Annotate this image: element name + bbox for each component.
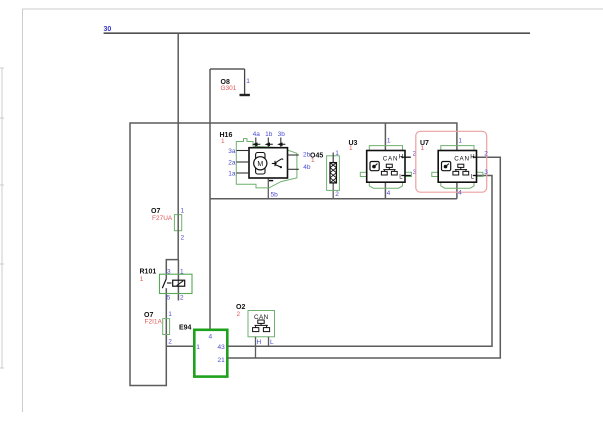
svg-text:1b: 1b xyxy=(265,131,273,138)
network icon xyxy=(381,164,397,175)
pin 2b xyxy=(288,154,299,156)
svg-text:2: 2 xyxy=(335,191,339,198)
svg-text:R101: R101 xyxy=(140,269,157,276)
svg-text:1: 1 xyxy=(335,150,339,157)
wire O2 L to line 43 xyxy=(268,337,270,347)
wire ground rail horizontal xyxy=(210,198,457,200)
component U7 CAN unit xyxy=(420,138,488,197)
svg-text:CAN: CAN xyxy=(383,156,399,163)
svg-text:M: M xyxy=(257,161,263,168)
wire fuse to relay jog xyxy=(166,231,178,279)
svg-text:1: 1 xyxy=(181,208,185,215)
svg-text:1: 1 xyxy=(196,344,200,351)
wire enclosure loop: left side, top side, bottom stub xyxy=(130,123,457,386)
svg-text:F27UA: F27UA xyxy=(152,215,173,222)
svg-text:4: 4 xyxy=(209,333,213,340)
wire E94 21 to U7 pin2 xyxy=(227,157,500,358)
svg-text:2a: 2a xyxy=(228,160,236,167)
wire U3 pin4 to rail xyxy=(384,182,386,199)
pin 5b xyxy=(269,180,273,182)
svg-text:1: 1 xyxy=(349,145,353,152)
svg-text:3: 3 xyxy=(167,268,171,275)
green connector outline xyxy=(236,139,297,188)
component O2 CAN node xyxy=(236,304,275,346)
ground O8 G301 xyxy=(210,69,250,95)
svg-text:21: 21 xyxy=(218,357,226,364)
pin 4b xyxy=(288,168,299,170)
svg-text:3b: 3b xyxy=(278,131,286,138)
network icon xyxy=(453,164,469,175)
svg-text:5b: 5b xyxy=(271,191,279,198)
svg-text:4b: 4b xyxy=(303,164,311,171)
svg-text:4a: 4a xyxy=(253,131,261,138)
component H16 wiper motor xyxy=(220,131,311,198)
pin stubs 2 and 3 xyxy=(473,156,477,158)
svg-text:30: 30 xyxy=(104,26,112,33)
wire from bus 30 down to fuse O7 xyxy=(177,33,179,214)
wire O45 pin2 to rail xyxy=(332,183,334,199)
svg-text:1: 1 xyxy=(180,268,184,275)
svg-text:CAN: CAN xyxy=(454,156,470,163)
svg-text:2: 2 xyxy=(168,338,172,345)
wire branch to U3 pin 1 xyxy=(384,123,386,151)
green connector outline xyxy=(360,146,411,189)
pin 2a xyxy=(237,161,250,163)
svg-text:L: L xyxy=(270,339,274,346)
svg-text:4: 4 xyxy=(387,190,391,197)
svg-text:G301: G301 xyxy=(221,85,237,92)
fuse O7 F2I1A xyxy=(144,311,172,345)
wire bus 30 xyxy=(104,32,530,34)
component O45 resistor xyxy=(310,150,339,198)
wire E94 43 to U7 pin3 xyxy=(227,176,492,347)
wire O2 H to line 21 xyxy=(255,337,257,358)
relay R101 xyxy=(140,268,193,301)
switch icon xyxy=(272,159,283,167)
fuse O7 F27UA xyxy=(151,208,185,242)
key icon xyxy=(442,162,451,171)
key icon xyxy=(370,162,379,171)
svg-text:2: 2 xyxy=(180,294,184,301)
wire ground rail vertical to E94 pin 4 xyxy=(209,69,211,330)
wire U7 pin4 to rail xyxy=(456,182,458,199)
component E94 xyxy=(179,324,227,376)
svg-text:E94: E94 xyxy=(179,324,192,331)
svg-text:3: 3 xyxy=(484,169,488,176)
svg-text:1: 1 xyxy=(168,311,172,318)
wire H16 5b to rail xyxy=(267,178,269,199)
svg-text:1: 1 xyxy=(221,138,225,145)
black housing xyxy=(438,151,476,183)
svg-text:1: 1 xyxy=(458,138,462,145)
black housing xyxy=(249,148,288,178)
pin stubs 2 and 3 xyxy=(401,156,411,158)
pin 1a xyxy=(237,172,250,174)
pin 3b xyxy=(280,138,282,148)
wire relay pin5 down through fuse F2I1A to E94 junction and box bottom xyxy=(165,288,167,346)
svg-text:1a: 1a xyxy=(228,171,236,178)
motor M xyxy=(256,153,265,175)
svg-text:2: 2 xyxy=(484,151,488,158)
svg-text:1: 1 xyxy=(387,138,391,145)
svg-text:43: 43 xyxy=(218,344,226,351)
svg-text:2: 2 xyxy=(237,311,241,318)
svg-text:3a: 3a xyxy=(228,148,236,155)
pin 4a xyxy=(255,138,257,148)
svg-text:5: 5 xyxy=(167,294,171,301)
svg-text:1: 1 xyxy=(421,145,425,152)
svg-text:F2I1A: F2I1A xyxy=(145,319,163,326)
harness box around U7 xyxy=(416,131,487,192)
wire E94 pin1 xyxy=(166,345,194,347)
green connector outline xyxy=(432,146,483,189)
wire relay pin1 branch through coil xyxy=(177,260,179,301)
component U3 CAN unit xyxy=(349,138,417,198)
pin 1b xyxy=(267,138,269,148)
svg-text:H: H xyxy=(257,339,262,346)
black housing xyxy=(367,151,405,183)
svg-text:4: 4 xyxy=(458,190,462,197)
svg-text:1: 1 xyxy=(311,157,315,164)
pin 3a xyxy=(237,150,250,152)
svg-text:2: 2 xyxy=(181,235,185,242)
svg-text:1: 1 xyxy=(140,276,144,283)
svg-text:1: 1 xyxy=(246,78,250,85)
